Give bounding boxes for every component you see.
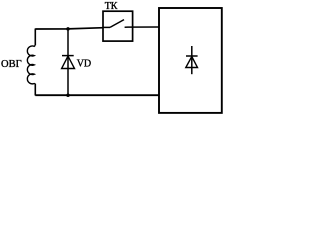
svg-text:ТК: ТК <box>105 1 118 12</box>
junction node bottom <box>66 93 70 97</box>
rectifier diode vertical lead <box>191 46 193 74</box>
diode VD triangle <box>62 56 75 68</box>
junction node top <box>66 27 70 31</box>
svg-text:VD: VD <box>77 59 91 70</box>
switch TK left stub <box>103 26 110 28</box>
svg-text:ОВГ: ОВГ <box>1 59 22 70</box>
rectifier box <box>159 8 222 113</box>
diode VD cathode bar <box>62 55 74 57</box>
contactor TK box <box>103 11 133 41</box>
diode VD vertical lead <box>67 29 69 95</box>
switch TK right stub / wire to rectifier <box>125 26 159 28</box>
wire top bus <box>35 28 103 29</box>
inductor L (ОВГ winding) coil arcs <box>27 45 35 84</box>
switch TK blade <box>110 20 124 28</box>
wire bottom bus <box>35 94 159 96</box>
rectifier diode triangle <box>186 57 198 68</box>
inductor L (ОВГ winding) vertical leads <box>34 29 36 96</box>
rectifier diode cathode bar <box>186 55 198 57</box>
